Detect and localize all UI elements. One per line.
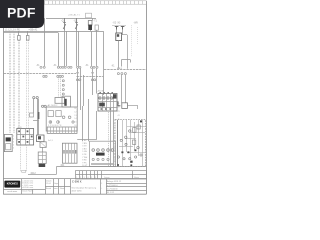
transformer T1 bbox=[88, 21, 92, 26]
panel -A2 dashed outline bbox=[115, 120, 145, 167]
wire: dashed risers left bbox=[10, 33, 29, 133]
wire: top feeder line bbox=[46, 18, 96, 20]
wire: bottom bus bbox=[56, 166, 146, 168]
svg-text:-W9: -W9 bbox=[134, 23, 139, 25]
svg-text:d 02.06. nme: d 02.06. nme bbox=[22, 187, 33, 189]
wire: plug stubs bbox=[117, 30, 123, 35]
pin labels A1 right bbox=[74, 108, 76, 127]
svg-text:PDF: PDF bbox=[7, 5, 36, 21]
connector bank X30 bbox=[62, 143, 77, 163]
svg-text:3 GY: 3 GY bbox=[82, 146, 87, 148]
svg-text:=GB+A1: =GB+A1 bbox=[29, 28, 39, 31]
svg-text:8 RD: 8 RD bbox=[82, 160, 87, 162]
revision table text bbox=[22, 180, 65, 193]
center title text bbox=[72, 180, 82, 184]
fuse F2 bbox=[27, 31, 29, 35]
terminal strip in A1 bbox=[47, 127, 77, 133]
wire: panel main riser bbox=[117, 120, 119, 167]
svg-text:-X20: -X20 bbox=[17, 127, 22, 129]
svg-text:14: 14 bbox=[74, 118, 76, 120]
disconnect Q2 bbox=[75, 18, 78, 30]
svg-text:4: 4 bbox=[13, 145, 14, 147]
wire: bottom L-run bbox=[28, 167, 57, 175]
svg-text:400V 50Hz: 400V 50Hz bbox=[71, 190, 81, 192]
svg-text:KRONES: KRONES bbox=[7, 181, 18, 185]
svg-text:Bl. 1/12: Bl. 1/12 bbox=[107, 192, 115, 194]
svg-text:Stromlaufplan Einspeisung: Stromlaufplan Einspeisung bbox=[71, 187, 97, 190]
node label frame =GB bbox=[86, 13, 92, 18]
svg-text:-X2 -X3: -X2 -X3 bbox=[113, 23, 122, 25]
relay K1 bbox=[122, 103, 128, 109]
svg-text:12.04: 12.04 bbox=[46, 183, 51, 185]
terminals above bbox=[33, 97, 47, 108]
wire: dashed drops from X20 bbox=[21, 145, 27, 172]
panel internals bbox=[119, 120, 145, 166]
aux block F3 bbox=[38, 152, 46, 163]
wire: left risers to lower blocks bbox=[34, 99, 39, 135]
border frame bbox=[3, 1, 146, 194]
wire list ladder bbox=[82, 140, 88, 167]
svg-text:=GB+A1-T1: =GB+A1-T1 bbox=[68, 13, 80, 16]
svg-text:Anlage KRS 12: Anlage KRS 12 bbox=[107, 180, 122, 183]
connector circles on break line bbox=[43, 75, 65, 95]
wire: neutral bus bbox=[4, 32, 58, 34]
upper title table bbox=[76, 171, 147, 179]
node labels A1 bbox=[47, 104, 62, 127]
svg-text:b1: b1 bbox=[114, 143, 116, 145]
svg-text:b6: b6 bbox=[114, 160, 116, 162]
svg-text:13: 13 bbox=[74, 115, 76, 117]
terminal grid X20 bbox=[17, 129, 34, 146]
svg-text:7 WH: 7 WH bbox=[82, 157, 88, 159]
plug dark bbox=[39, 164, 46, 167]
node L bus labels bbox=[5, 20, 138, 31]
svg-text:5 GN: 5 GN bbox=[82, 151, 87, 153]
svg-text:a6: a6 bbox=[114, 140, 116, 142]
control unit A1 bbox=[46, 107, 77, 131]
svg-text:a5: a5 bbox=[114, 137, 116, 139]
motor box M1 bbox=[55, 98, 65, 104]
svg-text:8 8 8: 8 8 8 bbox=[117, 68, 123, 70]
PDF badge bbox=[0, 0, 44, 28]
breaker F9 bbox=[116, 33, 122, 41]
svg-text:11: 11 bbox=[74, 108, 76, 110]
title block bbox=[3, 179, 146, 195]
svg-text:Bearb: Bearb bbox=[46, 187, 51, 190]
svg-text:we do more: we do more bbox=[7, 190, 17, 193]
svg-text:a4: a4 bbox=[114, 133, 116, 135]
cable marker W2 bbox=[38, 112, 40, 119]
wire: secondary feeder bbox=[112, 25, 126, 27]
plug -X2 bbox=[115, 27, 119, 30]
disconnect Q1 bbox=[63, 18, 66, 30]
svg-text:-X10 A: -X10 A bbox=[97, 89, 104, 92]
svg-text:b3: b3 bbox=[114, 150, 116, 152]
wire: break line right bbox=[77, 76, 104, 78]
svg-text:9 PK: 9 PK bbox=[82, 162, 87, 164]
wire: main bus bbox=[4, 31, 104, 33]
terminal row -X1 bbox=[40, 66, 98, 68]
svg-text:16: 16 bbox=[74, 125, 76, 127]
svg-text:a1: a1 bbox=[114, 123, 116, 125]
svg-text:1: 1 bbox=[13, 136, 14, 138]
svg-text:nme: nme bbox=[54, 188, 58, 190]
svg-text:a-170000-0: a-170000-0 bbox=[107, 185, 118, 187]
svg-text:m-7500000: m-7500000 bbox=[107, 188, 118, 190]
wire: mid risers bbox=[78, 68, 89, 141]
svg-text:a2: a2 bbox=[114, 126, 116, 128]
right info text bbox=[101, 180, 122, 194]
svg-text:12: 12 bbox=[74, 111, 76, 113]
svg-text:Datum Name: Datum Name bbox=[22, 190, 33, 193]
svg-text:5: 5 bbox=[13, 148, 14, 150]
terminal row right bbox=[104, 69, 146, 71]
svg-text:4 BU: 4 BU bbox=[82, 148, 87, 150]
svg-text:b4: b4 bbox=[114, 154, 116, 156]
svg-text:3: 3 bbox=[13, 142, 14, 144]
svg-text:2 BN: 2 BN bbox=[82, 143, 87, 145]
svg-text:15: 15 bbox=[74, 122, 76, 124]
logo bbox=[4, 181, 20, 188]
plug -X3 bbox=[121, 27, 125, 30]
svg-text:-W12: -W12 bbox=[30, 172, 36, 175]
wire: L-drop from X10 bbox=[77, 111, 113, 166]
svg-text:a3: a3 bbox=[114, 130, 116, 132]
svg-text:b5: b5 bbox=[114, 157, 116, 159]
svg-text:1 BK: 1 BK bbox=[82, 140, 87, 142]
wire: risers center bbox=[45, 18, 119, 95]
svg-text:Gepr: Gepr bbox=[54, 182, 59, 185]
fuse F1 bbox=[18, 31, 20, 35]
svg-text:6 YE: 6 YE bbox=[82, 154, 87, 156]
page-reference ladder bbox=[118, 103, 121, 121]
svg-text:Norm: Norm bbox=[60, 187, 65, 190]
top grid-reference tick row bbox=[3, 1, 146, 4]
svg-text:C-300 X: C-300 X bbox=[72, 180, 82, 184]
relay coil K2 bbox=[40, 142, 46, 148]
svg-text:b2: b2 bbox=[114, 147, 116, 149]
switch S1 cluster bbox=[37, 135, 44, 142]
cubicle box left bbox=[4, 134, 12, 151]
junction box P2 bbox=[90, 141, 116, 166]
wire: drop to pump box bbox=[59, 78, 61, 98]
wire: cable-break line bbox=[4, 73, 76, 75]
wire: panel left dashed edge bbox=[108, 112, 110, 166]
svg-text:2: 2 bbox=[13, 139, 14, 141]
